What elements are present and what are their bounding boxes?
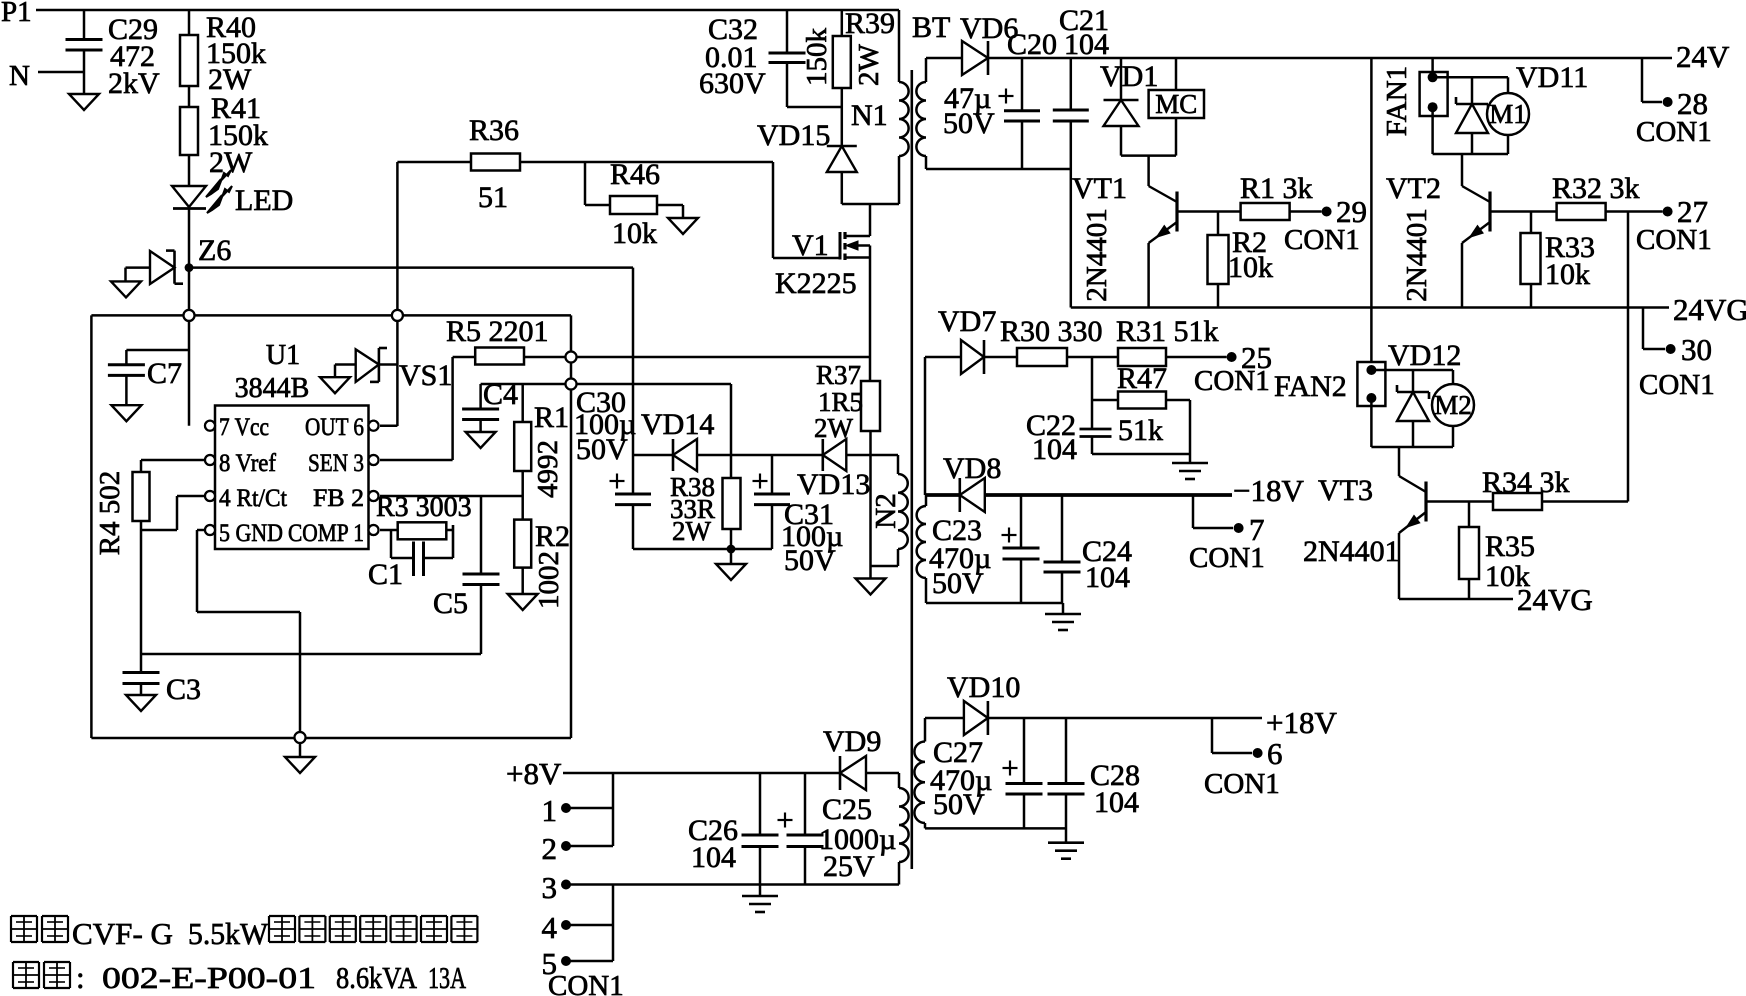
wire VD7 to R30: [984, 356, 1017, 359]
svg-text::: :: [76, 960, 85, 995]
resistor R38: [723, 384, 741, 529]
svg-text:50V: 50V: [576, 433, 628, 466]
svg-text:N1: N1: [851, 99, 888, 132]
wire pins12 to +8V: [612, 773, 615, 846]
svg-text:104: 104: [691, 841, 736, 874]
wire VD9 to winding: [866, 772, 899, 775]
wire control box outline: [91, 315, 571, 738]
label VD10: [947, 671, 1020, 704]
svg-text:C25: C25: [822, 793, 872, 826]
svg-text:8.6kVA: 8.6kVA: [336, 960, 418, 995]
label K2225: [775, 267, 857, 300]
wire VD15 to drain line: [842, 172, 899, 204]
svg-text:FAN2: FAN2: [1274, 370, 1347, 403]
svg-text:VD11: VD11: [1516, 61, 1588, 94]
svg-text:51: 51: [478, 181, 508, 214]
svg-text:8 Vref: 8 Vref: [219, 450, 277, 477]
node circle gnd bottom: [295, 732, 306, 743]
svg-text:5.5kW: 5.5kW: [188, 916, 269, 951]
pin SEN 3: [308, 450, 379, 477]
ground below Z6: [111, 281, 141, 297]
label C28 104: [1090, 759, 1140, 819]
wire +18V rail: [988, 717, 1262, 720]
label C22 104: [1026, 409, 1077, 466]
label VD1: [1100, 60, 1158, 93]
pin 3 CON1: [542, 870, 572, 905]
resistor R40: [180, 10, 198, 86]
label R32 3k: [1552, 172, 1640, 205]
wire FB line: [380, 495, 523, 498]
label CON1 bottom: [548, 970, 624, 996]
winding N1 primary: [899, 10, 909, 204]
resistor R30 330: [1017, 348, 1118, 366]
resistor R1 4992: [514, 384, 531, 471]
label R3 3003: [376, 492, 472, 523]
svg-text:1: 1: [542, 793, 558, 828]
svg-text:VT1: VT1: [1072, 172, 1127, 205]
wire SEN node to V1 source: [577, 356, 871, 359]
svg-text:R31 51k: R31 51k: [1116, 315, 1219, 348]
node circles overlay: [184, 310, 577, 743]
capacitor C26: [742, 773, 779, 885]
wire 24VG rail: [1071, 306, 1669, 309]
zener VS1: [335, 348, 397, 382]
wire VD1-MC bottom: [1121, 154, 1176, 157]
label VD14: [641, 408, 714, 441]
svg-text:LED: LED: [235, 184, 293, 217]
label 24V: [1676, 39, 1730, 74]
wire gate feed: [773, 162, 840, 258]
pin 2 CON1: [542, 831, 614, 866]
svg-text:C3: C3: [166, 673, 201, 706]
label VT3: [1318, 474, 1373, 507]
svg-text:C1: C1: [368, 558, 403, 591]
svg-text:2N4401: 2N4401: [1303, 535, 1400, 568]
capacitor C30: [615, 455, 651, 549]
plus C30: [610, 474, 625, 489]
label C27 470u 50V: [930, 736, 992, 821]
wire +18V return: [925, 827, 1066, 830]
wire 24V winding return: [926, 168, 1071, 171]
diode VD7: [961, 340, 984, 374]
capacitor C3: [123, 654, 160, 695]
wire gnd bus bottom: [141, 653, 481, 656]
svg-text:24VG: 24VG: [1673, 292, 1746, 327]
plus C31: [753, 474, 768, 489]
wire VD13 to N2: [846, 454, 898, 457]
resistor R41: [180, 107, 198, 155]
capacitor C22: [1080, 357, 1112, 454]
pin 30 CON1: [1639, 308, 1715, 402]
plus C23: [1002, 528, 1017, 543]
resistor R4: [133, 460, 206, 521]
capacitor C24: [1044, 495, 1081, 603]
label R38 33R 2W: [670, 472, 715, 546]
capacitor C32: [769, 10, 842, 107]
diode VD13: [823, 439, 847, 471]
svg-text:R32 3k: R32 3k: [1552, 172, 1640, 205]
label VT1: [1072, 172, 1127, 205]
junction dot Z6-Vcc: [185, 263, 194, 272]
diode VD15: [827, 146, 857, 172]
pin 27 CON1: [1636, 194, 1712, 256]
svg-text:CON1: CON1: [1194, 365, 1270, 397]
svg-text:4: 4: [542, 910, 558, 945]
wire FAN1 bottom: [1433, 107, 1508, 154]
wire P1 top rail: [36, 9, 899, 12]
label R35 10k: [1485, 530, 1535, 593]
label VD15: [757, 119, 830, 152]
wire R40-R41: [188, 86, 191, 107]
zener Z6: [126, 251, 184, 284]
svg-text:M1: M1: [1489, 99, 1527, 129]
diode VD1: [1104, 58, 1139, 156]
wire FAN2 bottom: [1371, 398, 1453, 447]
svg-text:R4 502: R4 502: [94, 471, 126, 556]
pin 5 CON1: [542, 946, 614, 981]
label R40 150k 2W: [206, 11, 266, 96]
plus C25: [778, 813, 793, 828]
label C26 104: [688, 814, 738, 874]
winding 24V secondary: [916, 58, 926, 169]
zener VD11: [1456, 77, 1488, 154]
svg-text:VD7: VD7: [938, 305, 996, 338]
svg-text:2kV: 2kV: [108, 67, 160, 100]
svg-text:002-E-P00-01: 002-E-P00-01: [102, 960, 316, 995]
wire VT2 base: [1490, 210, 1557, 213]
svg-text:C20: C20: [1007, 28, 1057, 61]
node N label: [9, 60, 30, 92]
node circle lineA right: [566, 379, 577, 390]
motor M1: [1487, 93, 1529, 154]
resistor R33 10k: [1521, 212, 1541, 308]
resistor R39: [833, 10, 851, 88]
svg-text:VD14: VD14: [641, 408, 714, 441]
wire R38 to gnd node: [730, 529, 733, 549]
caption line2: [13, 960, 466, 995]
svg-text:R47: R47: [1117, 362, 1167, 395]
label R46 10k: [610, 158, 660, 250]
pin 5 GND: [205, 520, 283, 547]
transistor VT3 2N4401: [1399, 447, 1426, 599]
svg-text:MC: MC: [1155, 89, 1197, 119]
svg-text:4992: 4992: [532, 440, 564, 498]
svg-text:104: 104: [1085, 561, 1130, 594]
svg-text:FB 2: FB 2: [313, 485, 364, 512]
svg-text:2W: 2W: [814, 413, 854, 443]
svg-text:VT2: VT2: [1386, 172, 1441, 205]
svg-text:C4: C4: [483, 378, 518, 411]
connector FAN1: [1420, 58, 1448, 116]
label VD9: [823, 725, 881, 758]
svg-text:1002: 1002: [533, 551, 565, 609]
svg-text:C5: C5: [433, 587, 468, 620]
svg-text:24V: 24V: [1676, 39, 1730, 74]
svg-text:3: 3: [542, 870, 558, 905]
label C4: [483, 378, 518, 411]
label N1: [851, 99, 888, 132]
label C30 100u 50V: [574, 386, 636, 466]
label R1 3k: [1240, 172, 1313, 205]
svg-text:VD13: VD13: [797, 468, 870, 501]
wire +8V return: [566, 883, 899, 886]
svg-text:R36: R36: [469, 114, 519, 147]
svg-text:VD12: VD12: [1388, 339, 1461, 372]
wire 24V to FAN2: [1370, 58, 1373, 362]
svg-text:CON1: CON1: [1636, 224, 1712, 256]
label R5 2201: [446, 315, 549, 348]
wire Vcc bus to VD14 node: [189, 268, 633, 455]
wire OUT vertical: [380, 162, 397, 426]
svg-text:CVF- G: CVF- G: [72, 916, 173, 951]
label BT: [912, 11, 950, 44]
wire FAN2 top to M2: [1371, 370, 1453, 384]
label V1: [792, 229, 829, 262]
resistor R32 3k: [1557, 203, 1663, 220]
pin 7 CON1: [1189, 495, 1265, 574]
svg-text:50V: 50V: [784, 544, 836, 577]
svg-text:K2225: K2225: [775, 267, 857, 300]
svg-text:50V: 50V: [943, 107, 995, 140]
transistor V1 K2225 MOSFET: [840, 204, 870, 260]
label VD8: [943, 452, 1001, 485]
pin 25 CON1: [1194, 340, 1272, 397]
svg-text:30: 30: [1681, 332, 1712, 367]
wire pins345 gnd: [612, 885, 615, 962]
ground below box: [285, 743, 315, 773]
svg-text:50V: 50V: [932, 567, 984, 600]
svg-text:M2: M2: [1434, 390, 1472, 420]
wire pin5 GND path: [197, 530, 300, 738]
diode VD8: [960, 478, 985, 512]
svg-text:6: 6: [1267, 736, 1283, 771]
capacitor C7: [108, 350, 189, 405]
capacitor C20: [1004, 58, 1040, 169]
svg-text:2: 2: [542, 831, 558, 866]
svg-text:10k: 10k: [1545, 258, 1590, 291]
capacitor C31: [754, 455, 790, 549]
svg-text:−18V: −18V: [1233, 473, 1304, 508]
wire R37 to ground: [869, 431, 872, 579]
node circle on OUT line: [392, 310, 403, 321]
wire LED to Vcc node: [188, 209, 191, 426]
svg-text:25V: 25V: [823, 850, 875, 883]
pin 4 CON1: [542, 910, 614, 945]
ground below C7: [111, 405, 141, 421]
motor M2: [1432, 384, 1474, 447]
zener VD12: [1397, 370, 1429, 447]
resistor R36: [397, 154, 773, 171]
wire SEN to R5: [380, 357, 453, 460]
capacitor C25: [787, 773, 824, 885]
pin FB 2: [313, 485, 379, 512]
winding -18V secondary: [917, 495, 926, 603]
ground below VS1: [320, 377, 350, 393]
label R47 51k: [1117, 362, 1167, 447]
capacitor C1: [391, 530, 453, 576]
label U1 3844B: [235, 340, 310, 404]
resistor R2 1002: [514, 520, 531, 568]
svg-text:P1: P1: [1, 0, 32, 28]
label C32 0.01 630V: [699, 13, 766, 100]
label Z6: [198, 234, 231, 267]
wire V1 source to R37: [869, 258, 872, 382]
wire R2 to gnd: [521, 567, 524, 594]
svg-text:630V: 630V: [699, 67, 766, 100]
wire vcc rect line: [633, 454, 673, 457]
svg-text:VD10: VD10: [947, 671, 1020, 704]
label R37 1R5 2W: [814, 360, 863, 443]
label C1: [368, 558, 403, 591]
pin COMP 1: [288, 520, 379, 547]
resistor R3: [380, 522, 453, 558]
resistor R34 3k: [1493, 493, 1628, 510]
label C24 104: [1082, 535, 1132, 594]
svg-text:104: 104: [1032, 433, 1077, 466]
svg-text:VT3: VT3: [1318, 474, 1373, 507]
svg-text:SEN 3: SEN 3: [308, 450, 364, 477]
IC U1 3844B box: [215, 406, 369, 550]
label LED: [235, 184, 293, 217]
label C25 1000u 25V: [819, 793, 896, 883]
label VD11: [1516, 61, 1588, 94]
ground below R37: [856, 579, 886, 595]
svg-text:CON1: CON1: [1204, 768, 1280, 800]
resistor R37: [861, 381, 880, 431]
transistor VT1 2N4401: [1149, 156, 1177, 308]
pin 6 CON1: [1204, 718, 1283, 800]
svg-text:Z6: Z6: [198, 234, 231, 267]
pin 1 CON1: [542, 793, 614, 828]
svg-text:+8V: +8V: [506, 756, 562, 791]
transformer core: [910, 70, 913, 869]
svg-text:10k: 10k: [1228, 251, 1273, 284]
pin 28 CON1: [1636, 58, 1712, 148]
svg-text:R35: R35: [1485, 530, 1535, 563]
wire node lineA: [481, 383, 731, 386]
svg-text:CON1: CON1: [1189, 542, 1265, 574]
winding N2 aux: [870, 455, 908, 566]
svg-text:R1: R1: [534, 401, 569, 434]
capacitor C4: [462, 384, 499, 432]
svg-text:51k: 51k: [1118, 414, 1163, 447]
svg-text:3844B: 3844B: [235, 373, 310, 404]
label R30 330: [1000, 315, 1103, 348]
label VS1: [399, 359, 452, 392]
label VD7: [938, 305, 996, 338]
svg-text:R30 330: R30 330: [1000, 315, 1103, 348]
diode VD14: [673, 439, 697, 471]
wire winding to VD7: [925, 357, 961, 495]
svg-text:VS1: VS1: [399, 359, 452, 392]
junction dot gnd node: [727, 545, 736, 554]
resistor R2 10k: [1208, 212, 1229, 308]
earth ground C28: [1048, 843, 1084, 859]
svg-text:24VG: 24VG: [1517, 582, 1593, 617]
label 2N4401 VT3: [1303, 535, 1400, 568]
pin 7 Vcc: [205, 414, 269, 441]
label 47u 50V: [943, 82, 995, 140]
label C20: [1007, 28, 1057, 61]
svg-text:OUT 6: OUT 6: [305, 414, 364, 441]
label FAN2: [1274, 370, 1347, 403]
wire +8V line: [563, 772, 840, 775]
earth ground C24: [1045, 614, 1081, 630]
capacitor C23: [1003, 495, 1040, 603]
svg-text:7 Vcc: 7 Vcc: [219, 414, 269, 441]
label FAN1: [1381, 66, 1413, 136]
label VD12: [1388, 339, 1461, 372]
label +8V: [506, 756, 562, 791]
svg-text:R37: R37: [816, 360, 861, 390]
svg-text:R1 3k: R1 3k: [1240, 172, 1313, 205]
LED D1: [172, 186, 206, 209]
svg-text:10k: 10k: [612, 217, 657, 250]
svg-text:N: N: [9, 60, 30, 92]
capacitor C27: [1006, 718, 1043, 828]
winding +18V secondary: [914, 718, 925, 828]
ground below C29: [69, 94, 99, 110]
svg-text:VD15: VD15: [757, 119, 830, 152]
svg-text:2W: 2W: [853, 43, 885, 86]
svg-text:50V: 50V: [933, 788, 985, 821]
pin 29 CON1: [1284, 194, 1367, 256]
svg-text:CON1: CON1: [1636, 116, 1712, 148]
svg-text:2N4401: 2N4401: [1401, 208, 1433, 301]
label C3: [166, 673, 201, 706]
label +18V: [1266, 705, 1337, 740]
svg-text:2W: 2W: [209, 146, 253, 179]
wire FAN1 top to M1: [1433, 77, 1508, 93]
wire C22 gnd line: [1092, 454, 1190, 462]
label 2N4401 VT2: [1401, 208, 1433, 301]
label R36 51: [469, 114, 519, 214]
caption line1: [11, 916, 477, 951]
wire R4 bottom bus: [140, 521, 143, 654]
earth ground C26: [742, 885, 778, 913]
svg-text:R46: R46: [610, 158, 660, 191]
node circle R5 right: [566, 352, 577, 363]
wire R32node to R34: [1627, 212, 1630, 502]
wire 24V rail: [988, 57, 1672, 60]
diode VD10: [964, 701, 988, 735]
svg-text:FAN1: FAN1: [1381, 66, 1413, 136]
diode VD9: [840, 756, 866, 790]
svg-text:COMP 1: COMP 1: [288, 520, 364, 547]
label R39 150k 2W: [801, 7, 895, 86]
svg-text:CON1: CON1: [1639, 369, 1715, 401]
svg-text:VD9: VD9: [823, 725, 881, 758]
wire VT3 base: [1426, 500, 1493, 503]
svg-text:13A: 13A: [428, 960, 466, 995]
plus C27: [1003, 761, 1018, 776]
label C21 104: [1059, 4, 1109, 61]
node circle on Vcc line: [184, 310, 195, 321]
wire N to C29: [38, 71, 84, 74]
label VT2: [1386, 172, 1441, 205]
pin OUT 6: [305, 414, 379, 441]
svg-text:4 Rt/Ct: 4 Rt/Ct: [219, 485, 287, 512]
transistor VT2 2N4401: [1462, 154, 1490, 308]
LED arrows: [206, 170, 232, 213]
resistor R5 2201: [453, 348, 571, 365]
svg-text:2W: 2W: [672, 516, 712, 546]
label R1 4992: [532, 401, 569, 498]
plus C20: [999, 89, 1014, 104]
svg-text:VD8: VD8: [943, 452, 1001, 485]
wire R1-R2: [521, 471, 524, 520]
wire C21 to 24VG rail: [1070, 121, 1073, 308]
